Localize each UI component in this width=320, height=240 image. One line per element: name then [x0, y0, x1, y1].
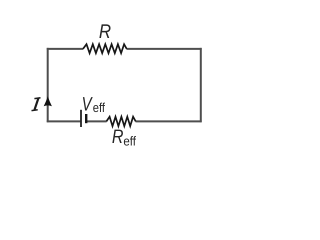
- wire bottom-left segment: [47, 120, 81, 122]
- wire right vertical: [200, 48, 202, 122]
- svg-text:V: V: [82, 93, 94, 115]
- current arrow head (up): [44, 96, 52, 106]
- wire left vertical: [47, 48, 49, 122]
- wire bottom-right segment: [136, 120, 202, 122]
- resistor R zigzag: [83, 44, 127, 53]
- svg-text:R: R: [112, 126, 124, 148]
- svg-text:R: R: [99, 21, 111, 43]
- label I (current): [32, 98, 41, 111]
- battery Veff long plate: [80, 110, 82, 127]
- svg-text:eff: eff: [123, 133, 136, 148]
- battery Veff short plate: [85, 114, 87, 123]
- wire bottom-mid segment (battery to Reff): [87, 120, 107, 122]
- wire top-left segment: [47, 48, 83, 50]
- wire top-right segment: [127, 48, 202, 50]
- resistor Reff zigzag: [106, 117, 135, 126]
- svg-text:eff: eff: [93, 100, 106, 115]
